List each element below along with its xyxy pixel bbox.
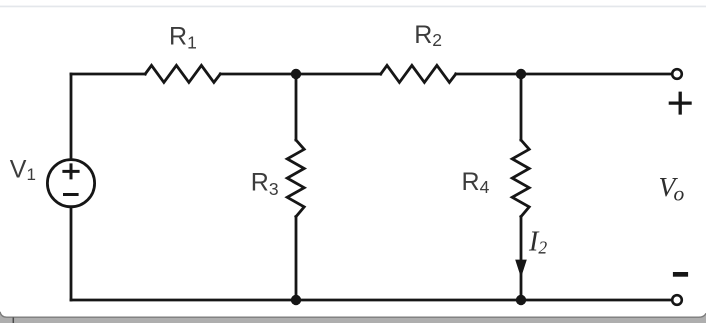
wire: R3 to bottom rail [295, 217, 298, 300]
wire: bottom rail middle segment [296, 299, 521, 302]
resistor R3 [287, 140, 304, 217]
wire: node B down to R4 [520, 74, 523, 140]
wire: R2 to node B [456, 73, 521, 76]
wire: R4 to bottom rail (current I2 path) [520, 217, 523, 300]
wire: top left (V1 top to R1) [71, 73, 145, 76]
resistor R1 [145, 65, 220, 82]
output minus sign [673, 272, 688, 277]
wire: bottom rail right segment [521, 299, 672, 302]
resistor R4 [512, 140, 529, 217]
node C (R3 bottom junction dot) [291, 295, 301, 305]
node D (R4 bottom junction dot) [516, 295, 526, 305]
resistor R2 [381, 65, 456, 82]
node B (junction dot) [516, 69, 526, 79]
node A (junction dot) [291, 69, 301, 79]
wire: R1 to node A [220, 73, 296, 76]
wire: bottom rail left segment [71, 299, 296, 302]
wire: left branch down to V1 [70, 74, 73, 160]
ui top divider [0, 6, 706, 8]
output plus sign [669, 92, 692, 115]
ui bottom scrollbar track [0, 312, 706, 323]
ui scrollbar notch [12, 317, 14, 323]
terminal minus (open circle, bottom right) [672, 295, 682, 305]
wire: node A down to R3 [295, 74, 298, 140]
wire: node B to plus terminal [521, 73, 672, 76]
voltage source V1 [47, 160, 94, 207]
terminal plus (open circle, top right) [672, 69, 682, 79]
current arrow I2 [515, 260, 527, 278]
wire: V1 bottom to bottom rail [70, 207, 73, 300]
wire: node A to R2 [296, 73, 381, 76]
